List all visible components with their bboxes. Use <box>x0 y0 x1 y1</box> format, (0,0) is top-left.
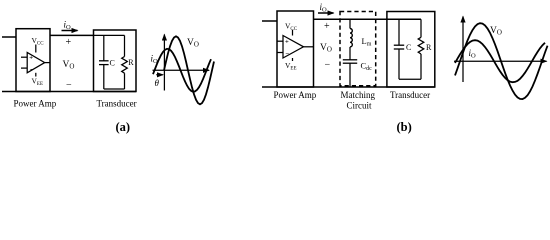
op-amp +/- pin marks (a) <box>29 55 33 74</box>
resistor R (b): top lead <box>420 19 422 37</box>
svg-text:VEE: VEE <box>285 61 297 72</box>
plot (a): theta phase arrow <box>156 74 163 76</box>
svg-text:R: R <box>426 43 432 52</box>
svg-text:Matching: Matching <box>341 90 376 100</box>
svg-text:VEE: VEE <box>32 77 44 88</box>
svg-text:VO: VO <box>187 38 199 49</box>
capacitor C (a): top lead <box>103 35 105 60</box>
wire: Vcc rail stub (b) <box>292 30 294 36</box>
svg-text:+: + <box>285 39 289 46</box>
plot (b): vertical axis <box>462 17 464 83</box>
wire: +input stub (b) <box>277 40 283 42</box>
svg-text:−: − <box>285 51 289 58</box>
wire: bottom rail (a) <box>2 91 136 93</box>
capacitor Cdc: bottom lead <box>349 63 351 87</box>
resistor R (a): zigzag <box>122 57 128 74</box>
wire: top output wire (a) <box>50 34 94 36</box>
op-amp U2 (b) <box>277 30 314 61</box>
svg-text:VO: VO <box>490 26 502 37</box>
svg-text:iO: iO <box>469 48 477 60</box>
wire: top output wire (b) <box>314 18 422 20</box>
svg-text:C: C <box>110 59 115 68</box>
svg-text:−: − <box>66 80 72 91</box>
svg-text:+: + <box>324 21 330 32</box>
svg-text:+: + <box>29 55 33 62</box>
waveform plot (a) <box>153 35 210 91</box>
plot (b): Vo sine curve <box>455 23 548 99</box>
plot (a): io sine curve <box>153 49 211 92</box>
plot (b): io sine curve <box>455 40 545 82</box>
capacitor C (b): bottom lead <box>398 49 400 79</box>
wire: -input stub (a) <box>21 67 27 69</box>
plot (a): vertical axis <box>163 35 165 91</box>
capacitor C (b): top lead <box>398 19 400 45</box>
wire: Vee rail stub (a) <box>35 73 37 77</box>
capacitor C (a): bottom lead <box>103 65 105 89</box>
resistor R (a): top lead <box>124 35 126 56</box>
svg-text:Cdc: Cdc <box>361 61 373 73</box>
inductor Lm: top lead <box>349 19 351 28</box>
svg-text:C: C <box>406 43 411 52</box>
op-amp U1 (a) <box>21 45 50 77</box>
wire: Vee rail stub (b) <box>292 58 294 61</box>
inductor Lm: bottom lead <box>349 47 351 60</box>
svg-text:+: + <box>66 37 72 48</box>
op-amp +/- pin marks (b) <box>285 39 289 58</box>
op-amp triangle (a) <box>27 53 45 73</box>
io current arrow (a) <box>62 30 78 32</box>
plot (b): horizontal axis <box>454 60 547 62</box>
svg-text:Power Amp: Power Amp <box>14 99 57 109</box>
op-amp triangle (b) <box>283 36 304 59</box>
svg-text:Transducer: Transducer <box>390 90 430 100</box>
svg-text:−: − <box>30 66 34 73</box>
Power Amp block (b) <box>277 11 314 87</box>
plot (a): Vo sine curve <box>164 36 214 104</box>
wire: left input stub (b) <box>262 20 277 22</box>
wire: inner top wire (a) <box>94 34 125 36</box>
svg-text:VCC: VCC <box>285 22 298 33</box>
svg-text:Power Amp: Power Amp <box>274 90 317 100</box>
wire: output stub (a) <box>45 62 50 64</box>
svg-text:(a): (a) <box>116 120 131 134</box>
resistor R (b): bottom lead <box>420 54 422 79</box>
Transducer block (a) <box>94 30 137 92</box>
svg-text:VCC: VCC <box>32 36 45 47</box>
Power Amp block (a) <box>16 29 50 92</box>
resistor R (a): bottom lead <box>124 73 126 89</box>
Transducer block (b) <box>387 12 435 88</box>
svg-text:Lm: Lm <box>362 36 372 48</box>
svg-text:θ: θ <box>155 78 160 88</box>
io current arrow (b) <box>318 12 334 14</box>
wire: Vcc rail stub (a) <box>35 45 37 53</box>
plot (a): horizontal axis <box>153 69 210 71</box>
wire: left input stub (a) <box>2 36 16 38</box>
waveform plot (b) <box>454 17 547 83</box>
wire: bottom rail (b) <box>262 86 435 88</box>
wire: inner bottom wire (a) <box>104 88 125 90</box>
svg-text:VO: VO <box>320 43 332 54</box>
svg-text:Circuit: Circuit <box>347 101 372 111</box>
wire: output stub (b) <box>304 46 314 48</box>
Matching Circuit dashed box <box>340 12 376 86</box>
svg-text:−: − <box>325 60 331 71</box>
wire: +input stub (a) <box>21 56 27 58</box>
wire: inner bottom wire (b) <box>399 78 421 80</box>
svg-text:iO: iO <box>151 54 159 66</box>
inductor Lm: coil <box>350 28 352 46</box>
svg-text:iO: iO <box>320 2 328 14</box>
capacitor Cdc: plates <box>343 59 357 61</box>
svg-text:iO: iO <box>64 20 72 32</box>
svg-text:R: R <box>128 58 134 67</box>
svg-text:(b): (b) <box>397 120 412 134</box>
capacitor C (b): plates <box>394 44 404 46</box>
capacitor C (a): plates <box>99 60 109 62</box>
wire: -input stub (b) <box>277 52 283 54</box>
svg-text:VO: VO <box>63 60 75 71</box>
resistor R (b): zigzag <box>418 37 424 54</box>
svg-text:Transducer: Transducer <box>97 99 137 109</box>
